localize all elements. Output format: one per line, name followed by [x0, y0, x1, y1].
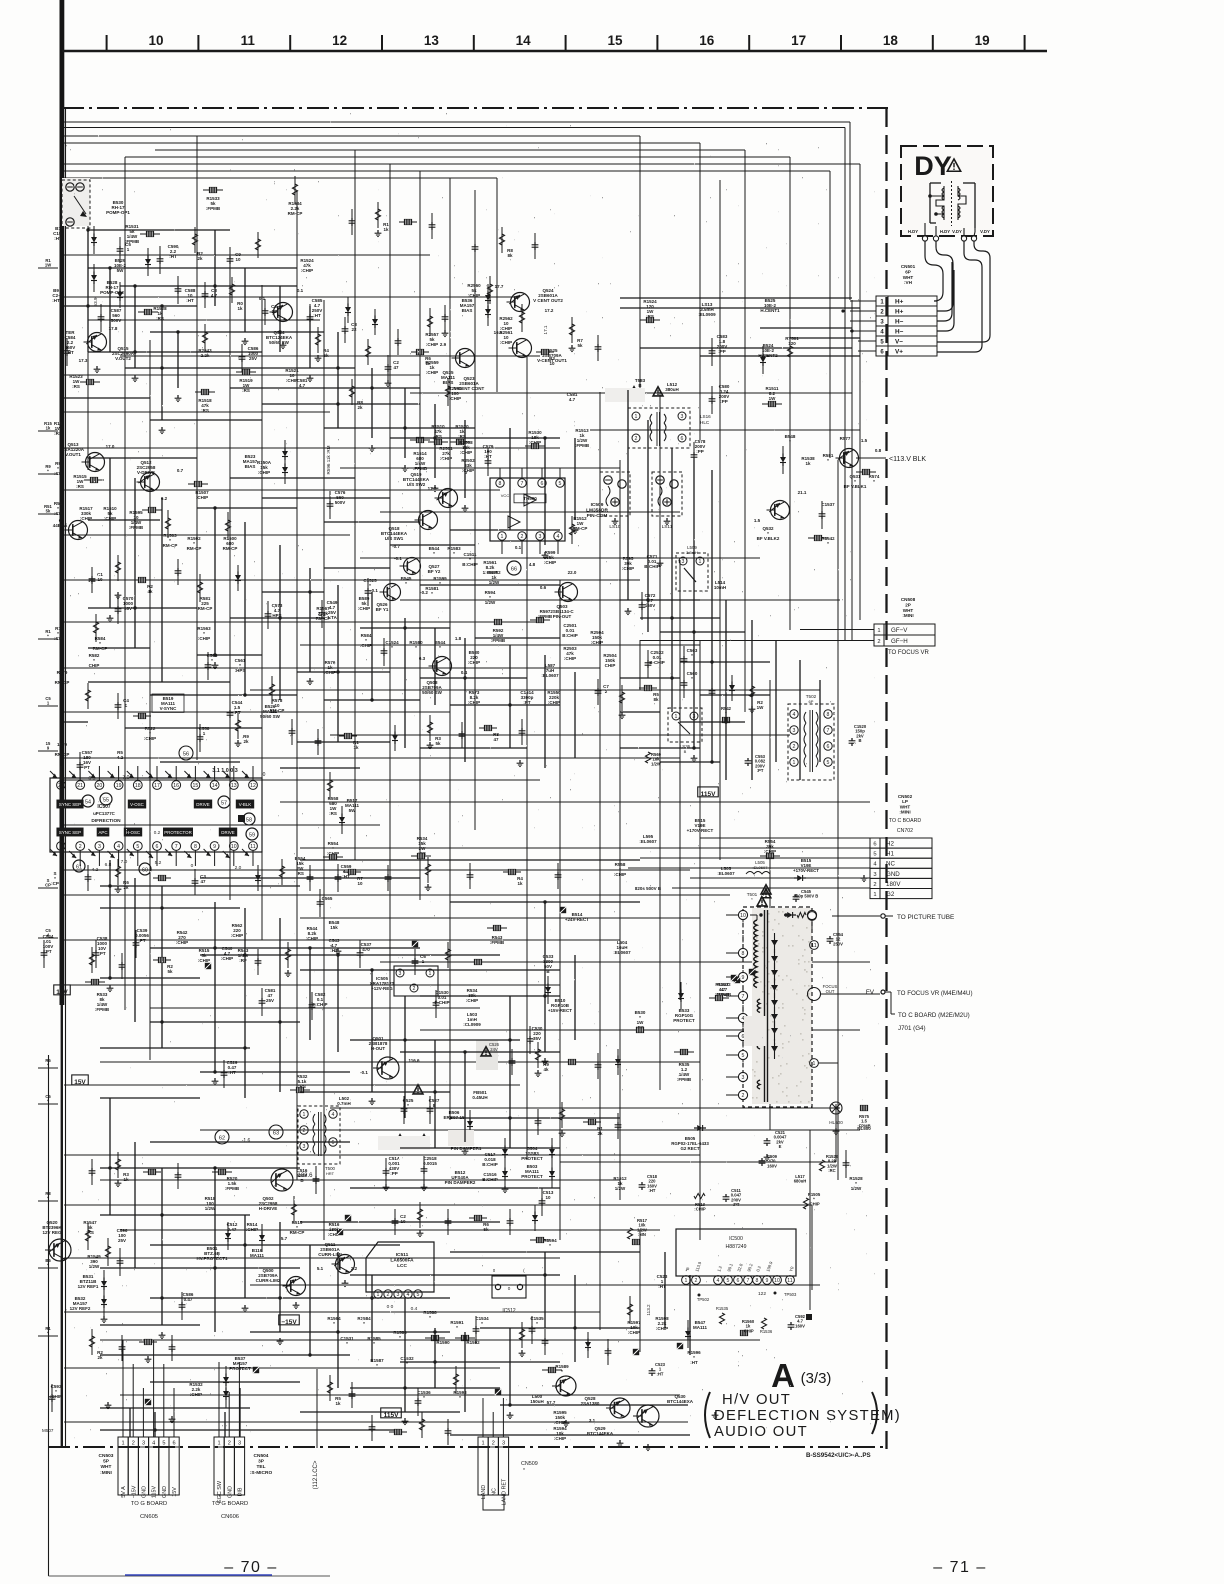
capacitor c — [221, 1060, 228, 1088]
svg-text:7: 7 — [742, 994, 745, 1000]
part C581 — [297, 378, 308, 388]
part R2556 — [448, 386, 462, 401]
part C543 — [329, 938, 340, 953]
part fill — [97, 572, 103, 582]
svg-text:500V: 500V — [111, 318, 122, 323]
part fill — [323, 348, 329, 358]
svg-text::PT: :PT — [98, 951, 106, 956]
svg-text:H1: H1 — [886, 851, 894, 858]
resistor b — [236, 369, 256, 374]
transistor q — [633, 1405, 659, 1427]
svg-text::RS: :RS — [76, 484, 84, 489]
svg-text:0 0: 0 0 — [387, 1304, 394, 1310]
resistor r — [93, 614, 98, 642]
svg-text:CN508: CN508 — [901, 597, 916, 602]
part C1511 — [462, 552, 478, 567]
part B537 — [229, 1356, 251, 1371]
svg-text:PROTECTOR: PROTECTOR — [164, 830, 191, 835]
svg-text:0.45UH: 0.45UH — [472, 1095, 487, 1100]
node TO PICTURE TUBE — [832, 914, 954, 921]
part R1508 — [459, 440, 473, 455]
svg-text:820p 500V B: 820p 500V B — [794, 894, 819, 899]
svg-text:PROTECT: PROTECT — [521, 1156, 543, 1161]
groundg — [421, 1184, 428, 1191]
svg-text:1: 1 — [377, 1292, 380, 1298]
resistor r — [105, 1238, 110, 1266]
svg-text:−15V: −15V — [131, 1485, 137, 1498]
part C1532 — [400, 1356, 414, 1366]
svg-text::CHIP: :CHIP — [426, 370, 438, 375]
svg-text:13: 13 — [424, 33, 440, 48]
svg-text::EL0607: :EL0607 — [541, 673, 559, 678]
svg-text:5.7: 5.7 — [281, 1236, 288, 1241]
part B528 — [100, 280, 124, 295]
diode d — [101, 1270, 107, 1298]
groundg — [280, 342, 287, 349]
resistor r — [453, 1366, 458, 1394]
capacitor fill — [442, 305, 449, 331]
svg-text:5.1: 5.1 — [317, 1266, 324, 1271]
ground fill — [417, 1230, 424, 1237]
capacitor C523 — [649, 1362, 666, 1376]
part R516 — [328, 1222, 340, 1237]
diode d — [678, 982, 684, 1010]
resistor fill — [192, 227, 197, 253]
svg-text:11: 11 — [787, 1278, 792, 1284]
resistor r — [197, 574, 202, 602]
part R1580 — [409, 640, 423, 650]
part R1564 — [327, 1316, 341, 1326]
part B502 — [451, 1136, 482, 1151]
resistor fill — [89, 1329, 94, 1355]
part R558 — [614, 862, 626, 877]
svg-text:1: 1 — [635, 414, 638, 420]
svg-text::CHIP: :CHIP — [591, 640, 603, 645]
svg-text:8: 8 — [827, 712, 830, 718]
resistor b — [203, 187, 223, 192]
svg-text:0.7: 0.7 — [177, 468, 184, 473]
svg-text::CHIP: :CHIP — [449, 396, 461, 401]
part R1503 — [163, 533, 178, 548]
part 5.1 — [317, 1266, 324, 1271]
title A(3/3) — [771, 1357, 831, 1394]
part -0.1 — [370, 588, 378, 593]
svg-text::MINI: :MINI — [902, 613, 913, 618]
svg-text:10: 10 — [357, 881, 363, 886]
svg-text:H2: H2 — [886, 841, 894, 848]
capacitor C518 — [639, 1174, 658, 1193]
svg-text:2k: 2k — [123, 885, 129, 890]
svg-text:66: 66 — [511, 566, 517, 572]
svg-text:3: 3 — [793, 728, 796, 734]
resistor fill — [375, 202, 380, 228]
part fill — [123, 880, 129, 890]
part C539 — [135, 928, 149, 943]
resistor b — [709, 995, 729, 1000]
capacitor c — [227, 700, 234, 728]
part C579 — [483, 444, 494, 459]
transistor q — [606, 1398, 630, 1418]
svg-text:12V REG: 12V REG — [42, 1230, 62, 1235]
capacitor c — [691, 442, 698, 470]
part 0.1 — [259, 296, 266, 301]
label 115V a — [698, 787, 719, 798]
sheet border right (dashed) — [885, 108, 887, 1449]
resistor fill — [143, 1169, 161, 1174]
svg-text:5: 5 — [742, 1053, 745, 1059]
part 17.5 — [428, 486, 437, 491]
capacitor fill — [595, 1053, 602, 1079]
part B506 — [443, 1110, 465, 1120]
svg-text:2: 2 — [635, 436, 638, 442]
part B548 — [329, 920, 340, 930]
part 0.2 — [161, 496, 168, 501]
svg-text::CHIP: :CHIP — [614, 872, 626, 877]
diode d — [225, 1222, 231, 1250]
svg-text:*: * — [439, 645, 441, 650]
part 3.1 — [589, 1418, 596, 1423]
svg-text:13: 13 — [231, 783, 237, 789]
warningw — [419, 1135, 429, 1144]
part C580 — [719, 384, 730, 404]
part fill — [493, 732, 499, 742]
part B523 — [243, 454, 258, 469]
part C544 — [43, 934, 54, 954]
svg-text:H+: H+ — [895, 299, 904, 306]
svg-text:4: 4 — [793, 712, 796, 718]
resistor fill — [569, 317, 574, 343]
transistor Q524 — [507, 288, 564, 312]
part R2501 — [439, 446, 453, 461]
groundg — [169, 1416, 176, 1423]
svg-text:5k: 5k — [167, 969, 173, 974]
svg-text:1:TA: 1:TA — [327, 615, 337, 620]
part R574 — [869, 474, 880, 484]
svg-text:58: 58 — [246, 818, 252, 824]
svg-text:5P: 5P — [103, 1459, 110, 1465]
svg-text:*: * — [873, 479, 875, 484]
ground fill — [375, 230, 382, 237]
svg-text:APC: APC — [98, 830, 107, 835]
svg-text:U/S SW2: U/S SW2 — [407, 482, 426, 487]
ground fill — [442, 330, 449, 337]
svg-text:CHIP: CHIP — [605, 663, 616, 668]
svg-text:*: * — [346, 1341, 348, 1346]
part R581 — [823, 453, 834, 463]
label 112.LCC — [313, 1369, 319, 1489]
svg-text:2k: 2k — [597, 1131, 603, 1136]
part fill — [271, 304, 277, 314]
svg-text:15V: 15V — [172, 1487, 178, 1497]
svg-text:0: 0 — [508, 1286, 511, 1291]
svg-text::CHIP: :CHIP — [554, 1436, 566, 1441]
svg-text:24V: 24V — [490, 1047, 498, 1052]
svg-text:H-OUT: H-OUT — [371, 1046, 385, 1051]
part R15 — [54, 421, 63, 436]
ground fill — [115, 1180, 122, 1187]
svg-text:R1535: R1535 — [716, 1306, 729, 1311]
diode d — [760, 346, 766, 374]
svg-text::FPMB: :FPMB — [677, 1077, 692, 1082]
resistor r — [569, 516, 574, 544]
resistor fill — [315, 327, 320, 353]
groundg — [293, 1302, 300, 1309]
part LS13 — [698, 302, 716, 317]
part B503 — [521, 1164, 543, 1179]
ground fill — [285, 970, 292, 977]
svg-text:M507: M507 — [42, 1428, 54, 1433]
svg-text:NC: NC — [886, 861, 895, 868]
svg-text:8: 8 — [499, 481, 502, 487]
part B515 — [687, 818, 714, 833]
svg-text:2: 2 — [132, 1441, 135, 1447]
scan noise — [66, 113, 879, 1440]
svg-text::HT: :HT — [690, 1360, 698, 1365]
part B533 — [673, 1008, 695, 1023]
svg-text:2k: 2k — [197, 256, 203, 261]
diode d — [502, 1160, 508, 1188]
capacitor C509 — [759, 1154, 778, 1168]
part 53.9 — [93, 297, 98, 306]
capacitor c — [319, 600, 326, 628]
svg-text:1.5: 1.5 — [861, 438, 868, 443]
resistor fill — [535, 1042, 540, 1068]
capacitor c — [427, 1096, 434, 1124]
svg-text:V.DY: V.DY — [952, 229, 962, 234]
part B531 — [78, 1274, 99, 1289]
svg-text:5: 5 — [727, 1278, 730, 1284]
part L587 — [541, 663, 559, 678]
svg-text:E: E — [779, 1144, 782, 1149]
part C578 — [695, 439, 706, 454]
svg-text::CHIP: :CHIP — [144, 736, 156, 741]
capacitor c — [681, 670, 688, 698]
resistor R1560 — [740, 1319, 754, 1336]
capacitor fill — [535, 1109, 542, 1135]
svg-text:21.1: 21.1 — [798, 490, 807, 495]
part C2532 — [649, 650, 665, 665]
svg-text::PT: :PT — [138, 938, 146, 943]
part fill — [383, 222, 389, 232]
coil LS11 — [652, 472, 682, 530]
svg-text::FPMB: :FPMB — [490, 940, 505, 945]
diode d — [485, 284, 491, 312]
part 1.5 — [754, 518, 761, 523]
diode d — [223, 1366, 229, 1394]
svg-text:5: 5 — [559, 481, 562, 487]
svg-text:113.2: 113.2 — [646, 1304, 651, 1316]
part fill — [577, 338, 583, 348]
svg-text:IC500: IC500 — [729, 1236, 743, 1242]
scan shading patches — [62, 178, 766, 1150]
part R562 — [231, 923, 243, 938]
resistor r — [165, 510, 170, 538]
svg-text:3: 3 — [142, 1441, 145, 1447]
svg-text::CHIP: :CHIP — [301, 268, 313, 273]
ground fill — [115, 592, 122, 599]
part R1586 — [393, 1330, 407, 1340]
svg-text:1k: 1k — [335, 1401, 341, 1406]
resistor fill — [349, 379, 354, 405]
part R522 — [144, 726, 156, 741]
capacitor fill — [175, 559, 182, 585]
capacitor fill — [459, 722, 466, 748]
svg-text:2P: 2P — [905, 602, 911, 607]
part x — [749, 969, 755, 975]
svg-text:25V: 25V — [266, 998, 274, 1003]
svg-text::FPMB: :FPMB — [95, 1007, 110, 1012]
label M507 — [42, 1428, 54, 1433]
svg-text:1.8: 1.8 — [455, 636, 462, 641]
svg-text:RM-CP: RM-CP — [270, 708, 285, 713]
svg-text:4: 4 — [152, 1441, 155, 1447]
capacitor c — [117, 1248, 124, 1276]
svg-text:DEFLECTION SYSTEM): DEFLECTION SYSTEM) — [714, 1408, 901, 1424]
svg-text:17.2: 17.2 — [545, 308, 554, 313]
capacitor fill — [369, 1415, 376, 1441]
svg-text:RM-CP: RM-CP — [223, 546, 238, 551]
svg-text:1/2W: 1/2W — [651, 761, 661, 766]
svg-text:1: 1 — [482, 1441, 485, 1447]
capacitor fill — [532, 233, 539, 259]
capacitor C545 — [793, 889, 819, 902]
svg-text::CHIP: :CHIP — [176, 940, 188, 945]
svg-text:LS16: LS16 — [700, 414, 711, 419]
diode fill — [372, 309, 378, 335]
svg-text:500V: 500V — [335, 500, 346, 505]
svg-text:B: B — [684, 749, 687, 754]
svg-text:3.1 1.0 0.3: 3.1 1.0 0.3 — [212, 768, 237, 774]
part 66 — [507, 561, 521, 575]
part fill — [235, 252, 241, 262]
svg-text:0: 0 — [191, 863, 194, 869]
svg-text:7: 7 — [175, 844, 178, 850]
wire connector risers — [123, 1340, 503, 1437]
capacitor c — [77, 752, 84, 780]
svg-text:44EKA: 44EKA — [53, 523, 68, 528]
part R543 — [490, 935, 505, 945]
part x — [560, 907, 566, 913]
svg-text:CN606: CN606 — [221, 1514, 239, 1520]
transistor Q520 — [42, 1220, 71, 1261]
resistor R1536 — [760, 1318, 773, 1334]
part R533 — [95, 992, 110, 1012]
resistor fill — [639, 685, 657, 690]
svg-text::CHIP: :CHIP — [360, 643, 372, 648]
part fill — [125, 242, 131, 252]
svg-text:5k: 5k — [577, 343, 583, 348]
svg-text:1: 1 — [429, 971, 432, 977]
svg-text:U/S SW1: U/S SW1 — [385, 536, 404, 541]
resistor fill — [411, 349, 429, 354]
diode d — [145, 248, 151, 276]
svg-text:0.4: 0.4 — [411, 1306, 418, 1312]
connector CN503 — [99, 1437, 180, 1520]
resistor fill — [503, 869, 521, 874]
svg-text:10: 10 — [235, 257, 241, 262]
resistor b — [856, 469, 876, 474]
node -1.6 — [242, 1138, 251, 1144]
svg-text:4.2: 4.2 — [92, 867, 99, 873]
svg-text::CHIP: :CHIP — [466, 998, 478, 1003]
part 57.7 — [547, 1400, 556, 1405]
svg-text:+12V-REG: +12V-REG — [371, 986, 393, 991]
svg-text:H/V OUT: H/V OUT — [722, 1392, 791, 1408]
capacitor fill — [289, 719, 296, 745]
svg-text::CHIP: :CHIP — [198, 958, 210, 963]
svg-text:10: 10 — [271, 309, 277, 314]
capacitor c — [239, 344, 246, 372]
part R1533 — [206, 196, 221, 211]
part C517 — [482, 1152, 498, 1167]
part R1587 — [370, 1358, 384, 1368]
part Q535 — [441, 370, 456, 385]
svg-text::RF: :RF — [239, 958, 247, 963]
svg-text:TEL: TEL — [256, 1464, 265, 1470]
svg-text::RS: :RS — [156, 316, 164, 321]
part fill — [357, 876, 363, 886]
svg-text:2.2: 2.2 — [351, 1266, 358, 1271]
svg-text::CHIP: :CHIP — [500, 340, 512, 345]
resistor b — [428, 439, 448, 444]
part x — [633, 1349, 639, 1355]
svg-text:1k: 1k — [425, 361, 431, 366]
part R1524 — [643, 299, 657, 319]
svg-text:6: 6 — [873, 842, 876, 848]
capacitor c — [357, 940, 364, 968]
svg-text:4.7: 4.7 — [211, 293, 218, 298]
svg-text:9: 9 — [213, 844, 216, 850]
svg-text:35V: 35V — [533, 1036, 541, 1041]
svg-text::PP: :PP — [718, 349, 726, 354]
resistor b — [542, 1367, 562, 1372]
svg-text:5k: 5k — [483, 1227, 489, 1232]
svg-text:TO C BOARD (M2E/M2U): TO C BOARD (M2E/M2U) — [898, 1012, 970, 1019]
part B504 — [521, 1146, 543, 1161]
part R558 — [328, 796, 339, 816]
svg-text::PP: :PP — [720, 399, 728, 404]
part x — [412, 941, 418, 947]
transistor Q519 — [403, 472, 458, 508]
part fill — [335, 1396, 341, 1406]
transistor Q501 — [369, 1036, 399, 1079]
part R1590 — [436, 1340, 450, 1345]
part R1584 — [357, 1316, 371, 1326]
diode d — [259, 1224, 265, 1252]
svg-text:<113.V BLK: <113.V BLK — [889, 456, 926, 463]
transistor 6 — [53, 518, 88, 540]
svg-text:*: * — [391, 645, 393, 650]
svg-text:2: 2 — [877, 639, 880, 645]
diode d — [339, 806, 345, 834]
svg-text:*: * — [211, 658, 213, 663]
svg-text:1/2W: 1/2W — [89, 1264, 100, 1269]
svg-text::MINI: :MINI — [899, 810, 910, 815]
part 1.8 — [455, 636, 462, 641]
svg-text:2: 2 — [521, 534, 524, 540]
deflection yoke DY — [901, 146, 993, 241]
part 17.1 — [543, 325, 548, 334]
svg-text:7.0: 7.0 — [121, 859, 128, 865]
capacitor fill — [445, 1419, 452, 1445]
resistor b — [80, 379, 100, 384]
svg-text:A: A — [771, 1357, 795, 1394]
svg-text:116.6: 116.6 — [408, 1058, 420, 1063]
svg-text:12V: 12V — [56, 989, 68, 996]
svg-text:NC: NC — [491, 1488, 497, 1496]
part 1579 — [55, 742, 70, 757]
resistor r — [327, 772, 332, 800]
